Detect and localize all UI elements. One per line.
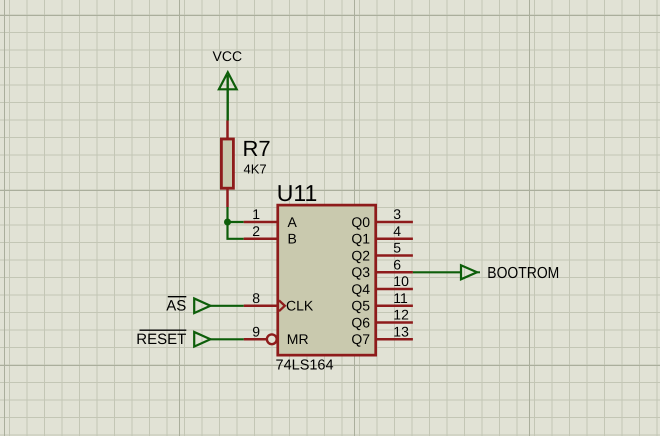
svg-text:Q6: Q6 [351,314,370,330]
svg-text:RESET: RESET [136,331,186,348]
wire junction to pin A [228,221,244,223]
resistor R7 top lead [226,121,229,140]
pin 10 Q4 stub [351,273,413,297]
svg-text:3: 3 [393,206,401,222]
svg-text:Q3: Q3 [351,264,370,280]
svg-text:R7: R7 [243,136,271,161]
power terminal VCC [213,48,243,121]
svg-text:6: 6 [393,256,401,272]
pin 13 Q7 stub [351,323,413,347]
wire Q3 to BOOTROM [413,271,461,273]
resistor R7 [221,136,270,207]
svg-text:Q4: Q4 [351,281,370,297]
svg-text:Q0: Q0 [351,214,370,230]
wire resistor to pin B [228,207,244,239]
wire RESET to MR [210,338,243,340]
svg-text:9: 9 [252,323,260,339]
svg-text:BOOTROM: BOOTROM [487,265,559,282]
svg-text:Q2: Q2 [351,247,370,263]
svg-text:VCC: VCC [213,48,243,64]
svg-text:Q7: Q7 [351,331,370,347]
svg-text:13: 13 [393,323,409,339]
junction node [224,219,231,226]
svg-text:5: 5 [393,240,401,256]
svg-text:1: 1 [252,206,260,222]
svg-text:U11: U11 [277,180,318,206]
pin 6 Q3 stub [351,256,413,280]
output terminal BOOTROM [461,265,559,282]
wire AS to CLK [210,305,243,307]
svg-text:2: 2 [252,223,260,239]
IC U11 body [276,180,376,374]
svg-text:4K7: 4K7 [244,162,267,177]
pin 11 Q5 stub [351,290,413,314]
svg-text:MR: MR [287,331,309,347]
input terminal AS [166,297,210,315]
svg-text:CLK: CLK [286,298,314,314]
svg-text:B: B [288,231,297,247]
pin 8 CLK stub [244,290,314,314]
pin 2 B stub [244,223,297,247]
pin 1 A stub [244,206,298,230]
svg-text:Q5: Q5 [351,298,370,314]
svg-text:10: 10 [393,273,409,289]
pin 5 Q2 stub [351,240,413,264]
pin 3 Q0 stub [351,206,413,230]
svg-text:Q1: Q1 [351,231,370,247]
input terminal RESET [136,330,210,348]
pin 9 MR stub with inversion bubble [244,323,309,347]
svg-text:8: 8 [252,290,260,306]
svg-text:AS: AS [166,298,186,315]
svg-text:74LS164: 74LS164 [276,357,334,373]
pin 4 Q1 stub [351,223,413,247]
svg-text:4: 4 [393,223,401,239]
pin 12 Q6 stub [351,307,413,331]
svg-text:A: A [288,214,298,230]
svg-text:12: 12 [393,307,409,323]
svg-text:11: 11 [393,290,408,306]
